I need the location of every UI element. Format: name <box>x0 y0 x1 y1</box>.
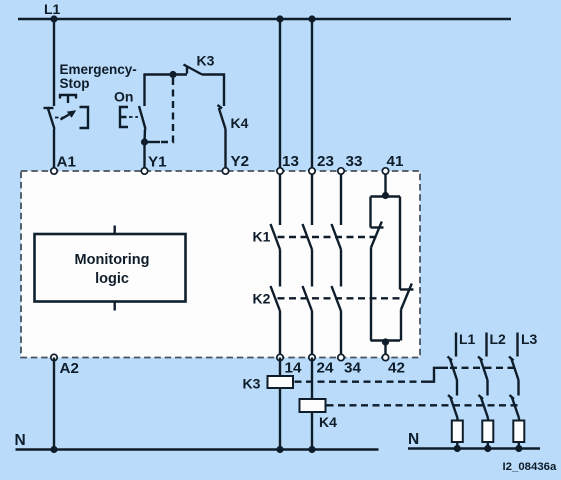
contact K3 pole 1 <box>448 357 458 381</box>
wire overload to N <box>456 442 458 449</box>
wire K1 to K2 col 23 <box>311 250 313 287</box>
wire terminal 23 to K1 contact <box>311 171 313 225</box>
junction 41 branch top <box>382 192 389 199</box>
dashed link step up <box>427 368 448 382</box>
contact K1a NO <box>271 224 281 250</box>
wire overload 3 to N <box>518 442 520 449</box>
wire K2 to terminal 24 <box>311 311 313 358</box>
terminal A1 <box>51 168 57 174</box>
terminal 23 <box>309 168 315 174</box>
wire branch bottom bar <box>371 339 401 341</box>
wire left branch upper <box>369 197 371 228</box>
svg-text:L1: L1 <box>44 1 61 17</box>
terminal Y2 <box>222 168 228 174</box>
svg-text:K3: K3 <box>197 53 215 69</box>
junction dashed feedback tap <box>169 71 176 78</box>
junction at L1 drop <box>50 15 57 22</box>
wire L3 to overload <box>518 418 520 421</box>
wire branch to terminal 42 <box>384 341 386 358</box>
contact K3 NO blade <box>184 65 203 75</box>
svg-text:42: 42 <box>388 360 405 377</box>
On push-button actuator <box>120 107 128 127</box>
junction K3 on N rail <box>276 446 283 453</box>
svg-text:L2: L2 <box>490 331 507 347</box>
overload heater F2 <box>482 421 493 443</box>
wire terminal 24 to K4 coil <box>311 358 313 400</box>
contact K2 NC in 41-42 <box>400 284 414 310</box>
wire terminal 41 down <box>384 171 386 197</box>
terminal 33 <box>338 168 344 174</box>
wire terminal 33 to K1 contact <box>340 171 342 225</box>
junction L1 on N <box>454 445 461 452</box>
wire A2 to N rail <box>53 358 55 450</box>
dashed link K2 contacts <box>278 297 405 299</box>
terminal Y1 <box>141 168 147 174</box>
wire L2 between poles <box>486 380 488 396</box>
coil K4 <box>300 399 326 412</box>
wire right branch lower <box>400 310 402 341</box>
junction at 23 drop <box>308 15 315 22</box>
safety relay enclosure box <box>21 171 420 358</box>
wire N rail left <box>16 448 379 450</box>
stub bottom of logic block <box>113 302 115 311</box>
wire L3 between poles <box>517 380 519 396</box>
stub top of logic block <box>113 226 115 235</box>
wire N rail right <box>408 447 540 449</box>
dashed feedback loop wire <box>160 78 173 142</box>
wire left branch lower <box>370 248 372 341</box>
wire phase L3 <box>516 333 518 357</box>
monitoring logic block U1 <box>35 234 186 302</box>
wire L1 between poles <box>456 380 458 396</box>
junction L3 on N <box>515 445 522 452</box>
wire K1 to K2 col 13 <box>279 250 281 287</box>
svg-text:A1: A1 <box>57 154 77 171</box>
emergency stop mushroom head actuator <box>60 95 76 103</box>
switch S1 emergency stop NC contact <box>44 107 55 129</box>
svg-text:23: 23 <box>317 153 334 170</box>
wire K2 to terminal 34 <box>340 311 342 358</box>
svg-text:Y2: Y2 <box>231 153 250 170</box>
terminal 41 <box>382 168 388 174</box>
svg-text:K4: K4 <box>231 115 249 131</box>
label Emergency-Stop <box>60 62 137 91</box>
svg-text:41: 41 <box>387 153 404 170</box>
contact K1c NO <box>332 224 342 250</box>
wire rail to terminal 13 <box>279 19 281 171</box>
contact K2b NO <box>303 286 313 311</box>
wire L1 to overload <box>456 418 458 421</box>
svg-text:K1: K1 <box>253 229 271 245</box>
svg-text:Monitoring: Monitoring <box>75 252 150 268</box>
wire overload 2 to N <box>487 442 489 449</box>
contact K3 pole 3 <box>509 357 519 381</box>
wire phase L1 <box>455 333 457 357</box>
terminal A2 <box>51 354 57 360</box>
contact K4 pole 2 <box>479 395 489 418</box>
junction L2 on N <box>484 445 491 452</box>
wire rail to terminal 23 <box>311 19 313 171</box>
junction 42 branch bottom <box>382 338 389 345</box>
svg-text:14: 14 <box>285 360 302 377</box>
dashed link K1 contacts <box>278 236 380 238</box>
wire emergency stop to A1 <box>53 129 55 171</box>
contact K3 pole 2 <box>478 357 488 381</box>
svg-text:34: 34 <box>344 360 361 377</box>
contact K2c NO <box>332 286 342 311</box>
terminal 34 <box>338 354 344 360</box>
junction at 13 drop <box>276 15 283 22</box>
overload heater F1 <box>452 421 463 443</box>
wire K4 coil to N rail <box>311 412 313 450</box>
svg-text:On: On <box>114 89 133 105</box>
label Monitoring logic <box>75 252 150 287</box>
wire terminal 13 to K1 contact <box>279 171 281 225</box>
wire K3 coil to N rail <box>279 388 281 450</box>
junction K4 on N rail <box>308 446 315 453</box>
svg-text:Stop: Stop <box>60 76 90 91</box>
dashed link K3 contactor blades <box>450 367 517 369</box>
wire terminal 14 to K3 coil <box>279 358 281 377</box>
svg-text:K3: K3 <box>243 376 261 392</box>
coil K3 <box>268 376 294 388</box>
svg-text:A2: A2 <box>60 360 79 377</box>
svg-text:24: 24 <box>317 360 334 377</box>
svg-text:13: 13 <box>282 153 299 170</box>
svg-text:K2: K2 <box>253 291 271 307</box>
wire On corner to K3 contact <box>143 73 187 75</box>
terminal 42 <box>382 354 388 360</box>
svg-text:N: N <box>408 431 419 448</box>
svg-text:I2_08436a: I2_08436a <box>503 461 558 473</box>
contact K4 NO blade <box>218 105 226 129</box>
terminal 24 <box>309 354 315 360</box>
contact K1b NO <box>303 224 313 250</box>
wire branch top bar <box>371 195 401 197</box>
wire K3 contact to K4 contact <box>202 75 224 107</box>
wire K2 to terminal 14 <box>279 311 281 358</box>
wire L2 to overload <box>487 418 489 421</box>
contact K4 pole 1 <box>448 395 458 418</box>
dashed actuator link On <box>129 116 138 118</box>
svg-text:K4: K4 <box>319 414 337 430</box>
wire right branch upper <box>399 197 401 290</box>
svg-text:33: 33 <box>346 153 363 170</box>
wire node stub <box>145 141 161 143</box>
svg-text:N: N <box>15 432 26 449</box>
svg-text:Y1: Y1 <box>148 154 167 171</box>
switch On NO contact <box>139 106 146 129</box>
terminal 14 <box>277 354 283 360</box>
wire top supply rail <box>18 18 511 20</box>
wire K3 contact to On button <box>143 75 145 107</box>
wire node to terminal Y1 <box>143 142 145 171</box>
terminal 13 <box>277 168 283 174</box>
wire phase L2 <box>485 333 487 357</box>
dashed actuator link <box>55 117 64 119</box>
wire K4 contact to terminal Y2 <box>224 129 226 171</box>
svg-text:logic: logic <box>95 271 129 287</box>
positive opening bracket <box>80 107 89 128</box>
wire On button to node <box>143 129 146 142</box>
overload heater F3 <box>513 421 524 443</box>
contact K1 NC in 41-42 <box>371 222 384 248</box>
svg-text:Emergency-: Emergency- <box>60 62 137 77</box>
wire L1 to emergency stop <box>53 19 55 106</box>
wire K1 to K2 col 33 <box>340 250 342 287</box>
dashed link K3 coil to contactor <box>295 381 429 383</box>
junction node Y1 branch <box>141 138 148 145</box>
svg-text:L1: L1 <box>459 331 476 347</box>
dashed link K4 coil to contactor <box>327 404 519 406</box>
junction A2 on N rail <box>50 446 57 453</box>
positive opening arrow <box>61 110 77 119</box>
contact K2a NO <box>271 286 281 311</box>
svg-text:L3: L3 <box>521 331 538 347</box>
contact K4 pole 3 <box>510 395 520 418</box>
